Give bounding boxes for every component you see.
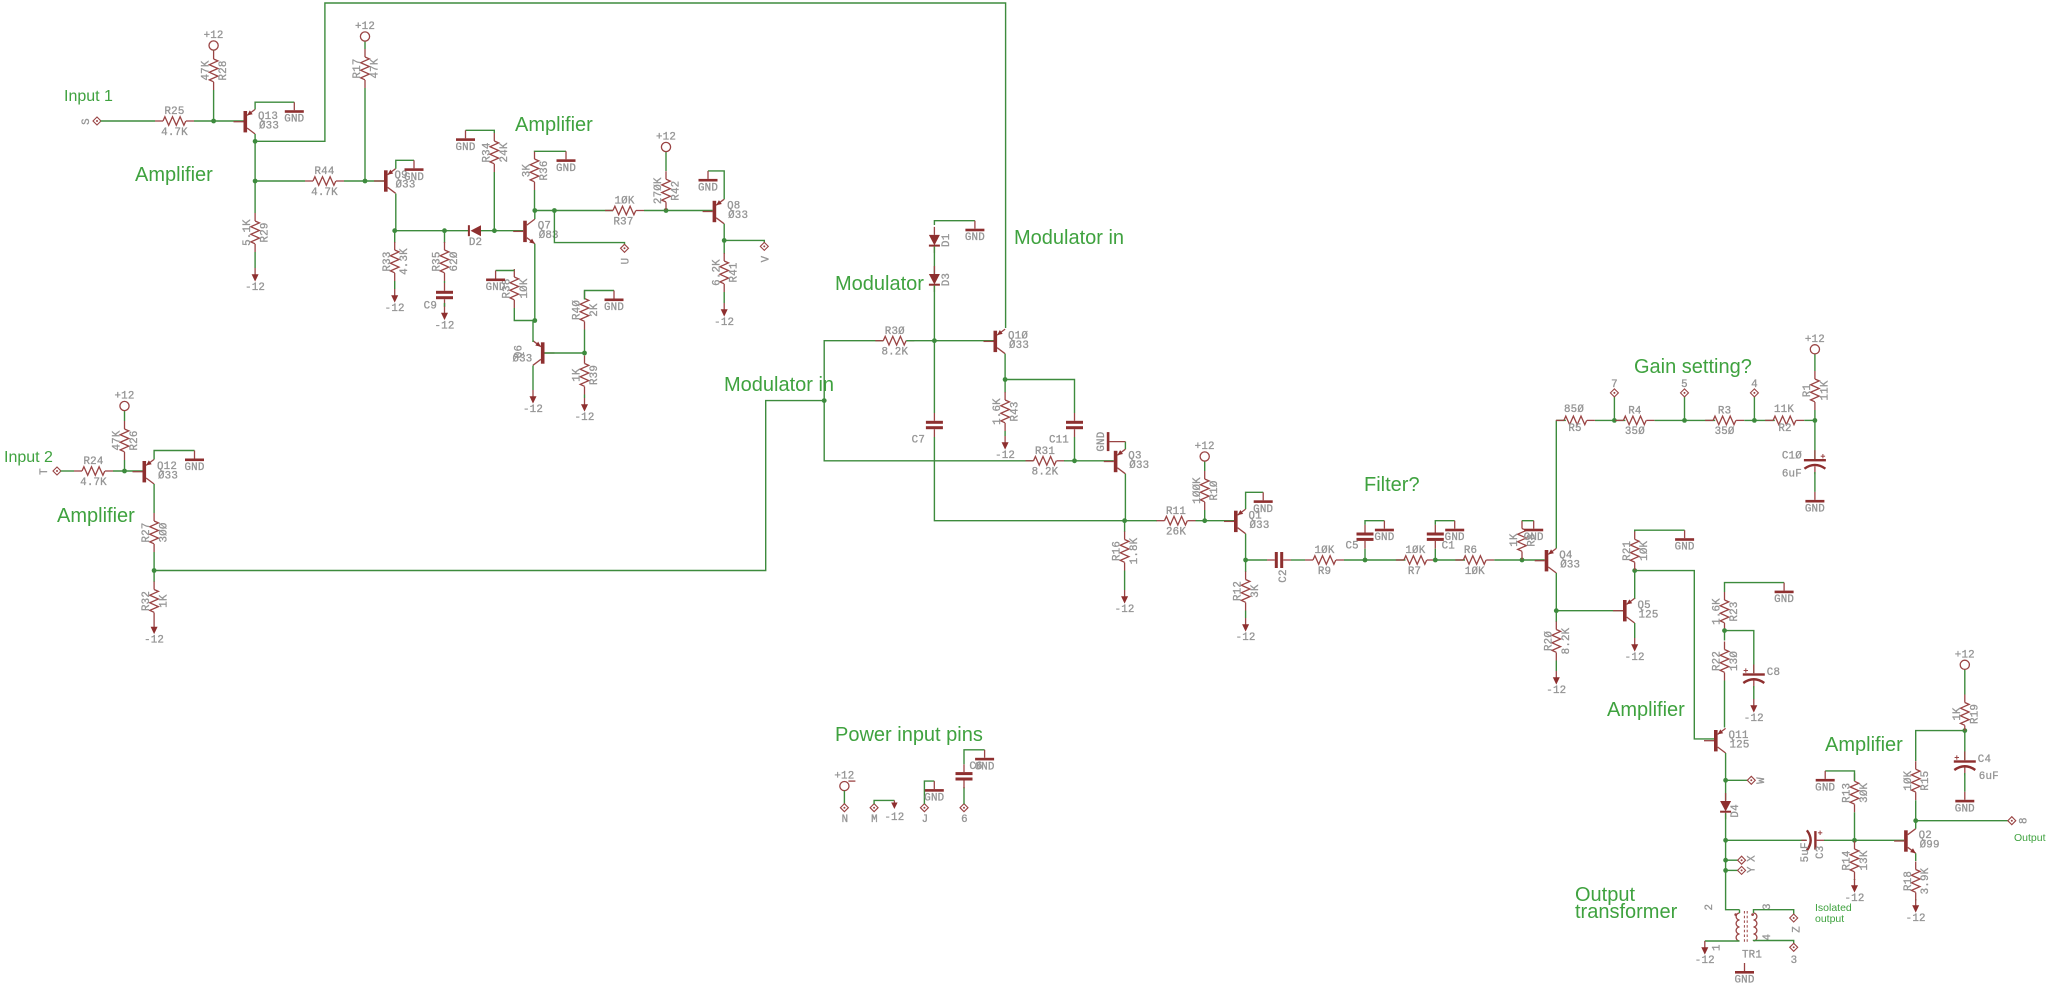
junction O3: [1852, 838, 1857, 843]
svg-text:2K: 2K: [589, 303, 601, 317]
svg-text:3.9K: 3.9K: [1920, 867, 1932, 894]
svg-text:GND: GND: [1805, 503, 1825, 515]
svg-text:GND: GND: [455, 142, 475, 154]
transistor Q9: [374, 169, 416, 194]
svg-text:3ØØ: 3ØØ: [159, 522, 171, 542]
svg-text:W: W: [1756, 777, 1768, 784]
label Amplifier: [515, 114, 593, 136]
junction F3: [1520, 558, 1525, 563]
svg-text:D2: D2: [469, 237, 482, 249]
wire Q9 collector down: [395, 194, 397, 231]
ground G13: [1445, 521, 1465, 545]
wire Q13 collector down: [254, 134, 256, 181]
svg-text:Output: Output: [2014, 832, 2046, 844]
wire C9 bottom: [444, 303, 446, 307]
svg-text:8.2K: 8.2K: [1561, 627, 1573, 654]
junction O4: [1723, 858, 1728, 863]
wire to TR1: [1726, 870, 1740, 909]
wire Q4c to Q5: [1556, 610, 1624, 612]
junction O7: [1962, 728, 1967, 733]
svg-text:Amplifier: Amplifier: [515, 114, 593, 136]
diode D4: [1720, 793, 1742, 819]
svg-text:R1Ø: R1Ø: [1209, 480, 1221, 500]
svg-text:3: 3: [1791, 955, 1798, 967]
svg-text:5uF: 5uF: [1800, 842, 1812, 862]
svg-text:27ØK: 27ØK: [653, 177, 665, 204]
ground G2: [404, 160, 424, 184]
junction O1: [1723, 778, 1728, 783]
svg-text:D4: D4: [1730, 804, 1742, 817]
wire Q5 emitter up: [1634, 571, 1636, 599]
svg-text:1ØK: 1ØK: [1465, 566, 1485, 578]
junction Q5k: [1722, 628, 1727, 633]
svg-text:R37: R37: [613, 216, 633, 228]
resistor R4: [1615, 406, 1654, 439]
junction F4: [1554, 608, 1559, 613]
wire R38 top to GND: [496, 270, 515, 272]
svg-text:13Ø: 13Ø: [1729, 651, 1741, 671]
svg-text:35Ø: 35Ø: [1715, 426, 1735, 438]
ground G1: [284, 102, 304, 126]
svg-text:R36: R36: [539, 160, 551, 180]
svg-text:125: 125: [1730, 739, 1750, 751]
resistor R21: [1622, 531, 1651, 570]
wire R41 top: [723, 240, 725, 254]
pin T: [39, 467, 61, 475]
svg-text:R2: R2: [1778, 423, 1791, 435]
svg-text:R27: R27: [141, 522, 153, 542]
pin U: [620, 244, 632, 264]
supply -12 M6: [714, 303, 734, 329]
wire R19 bottom: [1964, 731, 1966, 734]
resistor R35: [432, 242, 461, 281]
svg-text:C3: C3: [1815, 846, 1827, 859]
wire Q7 emitter down: [534, 244, 536, 321]
svg-text:R25: R25: [164, 106, 184, 118]
svg-text:5: 5: [1681, 379, 1688, 391]
svg-text:1ØØK: 1ØØK: [1192, 477, 1204, 504]
supply +12 P4: [114, 391, 134, 411]
svg-text:-12: -12: [1695, 955, 1715, 967]
wire R11 to Q1: [1196, 520, 1235, 522]
wire R34 top to GND: [466, 130, 495, 133]
supply -12 Mp: [884, 800, 904, 824]
label Modulator: [835, 273, 924, 295]
resistor R19: [1952, 695, 1981, 734]
pin W: [1747, 776, 1768, 784]
resistor: [1765, 416, 1804, 425]
junction Q5j: [1632, 568, 1637, 573]
svg-text:1ØK: 1ØK: [1639, 540, 1651, 560]
ground G5: [486, 271, 506, 295]
wire R14 bottom: [1854, 879, 1856, 880]
wire W stub: [1726, 779, 1748, 781]
wire pin7 stub: [1613, 397, 1615, 421]
wire Y stub: [1726, 869, 1738, 871]
resistor R13: [1842, 773, 1871, 812]
svg-text:R15: R15: [1920, 771, 1932, 791]
svg-text:3K: 3K: [1250, 584, 1262, 598]
svg-text:GND: GND: [1524, 532, 1544, 544]
junction A1: [211, 119, 216, 124]
pin S: [81, 117, 101, 125]
svg-text:6.2K: 6.2K: [711, 259, 723, 286]
wire pin4 stub: [1753, 397, 1755, 421]
svg-text:Modulator: Modulator: [835, 273, 924, 295]
svg-text:C1Ø: C1Ø: [1782, 451, 1802, 463]
svg-text:1ØK: 1ØK: [1903, 770, 1915, 790]
transistor Q8: [703, 199, 749, 224]
resistor R29: [242, 213, 271, 252]
svg-text:N: N: [842, 814, 849, 826]
svg-text:3K: 3K: [522, 164, 534, 178]
svg-text:D1: D1: [941, 234, 953, 247]
svg-text:R28: R28: [218, 60, 230, 80]
wire R43 top: [1004, 380, 1006, 393]
wire R23-R22: [1724, 631, 1726, 641]
wire R21 top to GND: [1635, 530, 1685, 531]
wire Q1 emitter up: [1246, 492, 1264, 509]
svg-text:R41: R41: [729, 262, 741, 282]
wire output rail: [1916, 820, 2008, 822]
svg-text:R9: R9: [1318, 566, 1331, 578]
ground G3: [455, 130, 475, 154]
svg-text:-12: -12: [434, 321, 454, 333]
svg-text:8.2K: 8.2K: [881, 347, 908, 359]
svg-text:47K: 47K: [112, 430, 124, 450]
wire C1 top to GND: [1435, 521, 1454, 525]
wire Q12 emitter to GND: [154, 451, 194, 460]
wire Q12 collector down: [153, 484, 155, 513]
resistor R16: [1112, 532, 1141, 571]
svg-text:R26: R26: [129, 430, 141, 450]
supply +12 P3: [656, 132, 676, 152]
label Amplifier: [57, 505, 135, 527]
svg-text:Modulator in: Modulator in: [1014, 227, 1124, 249]
svg-text:Ø33: Ø33: [1009, 340, 1029, 352]
svg-text:125: 125: [1639, 609, 1659, 621]
pin 4: [1750, 389, 1758, 397]
wire C5 stub: [1364, 549, 1366, 560]
wire R18 bottom: [1915, 899, 1917, 901]
svg-text:R6: R6: [1464, 545, 1477, 557]
svg-text:R19: R19: [1969, 704, 1981, 724]
svg-text:Ø83: Ø83: [539, 230, 559, 242]
svg-text:R22: R22: [1712, 651, 1724, 671]
svg-text:transformer: transformer: [1575, 901, 1678, 923]
svg-text:Input 2: Input 2: [4, 449, 53, 466]
wire R21 bottom: [1634, 569, 1636, 571]
svg-text:R12: R12: [1233, 581, 1245, 601]
resistor R15: [1903, 761, 1932, 800]
svg-text:Amplifier: Amplifier: [1607, 699, 1685, 721]
resistor R26: [112, 421, 141, 460]
wire Q1 to C2: [1246, 559, 1267, 561]
svg-text:C5: C5: [1345, 541, 1358, 553]
transistor Q13: [234, 109, 280, 134]
svg-text:Ø33: Ø33: [259, 120, 279, 132]
wire X stub: [1726, 859, 1738, 861]
wire D1 to D3: [933, 247, 935, 275]
junction A2: [253, 139, 258, 144]
ground G8: [184, 451, 204, 475]
wire R23 top to GND: [1725, 583, 1785, 592]
svg-text:R23: R23: [1729, 601, 1741, 621]
capacitor C10: [1782, 450, 1826, 481]
svg-text:C9: C9: [424, 301, 437, 313]
label Gain setting?: [1634, 356, 1752, 378]
supply -12 M8: [995, 436, 1015, 462]
wire Q6 collector down: [532, 366, 534, 391]
wire Q2 collector up: [1915, 821, 1917, 829]
wire 6 to C6: [963, 787, 965, 804]
svg-text:-12: -12: [1906, 913, 1926, 925]
junction C2j: [932, 338, 937, 343]
svg-text:R24: R24: [83, 456, 103, 468]
transistor Q2: [1894, 829, 1940, 854]
svg-text:R13: R13: [1842, 783, 1854, 803]
diode D2: [469, 225, 482, 249]
ground G12: [1374, 521, 1394, 545]
capacitor C5: [1345, 525, 1373, 553]
svg-text:Ø33: Ø33: [512, 354, 532, 366]
svg-text:R33: R33: [382, 251, 394, 271]
svg-text:R31: R31: [1035, 446, 1055, 458]
wire C8 branch: [1725, 631, 1754, 673]
resistor R18: [1903, 862, 1932, 901]
svg-text:Ø33: Ø33: [1250, 520, 1270, 532]
svg-text:3: 3: [1762, 903, 1774, 910]
ground G14: [1524, 521, 1544, 545]
junction A3: [253, 179, 258, 184]
ground G6: [604, 291, 624, 315]
svg-text:R4Ø: R4Ø: [572, 300, 584, 320]
wire D2 to Q7: [481, 230, 523, 232]
wire S to R25: [101, 120, 155, 122]
wire R29 top: [254, 181, 256, 213]
svg-text:4: 4: [1751, 379, 1758, 391]
supply -12 M12: [1625, 638, 1645, 664]
wire Q8 emitter to GND: [708, 171, 724, 199]
svg-text:6uF: 6uF: [1979, 771, 1999, 783]
supply +12 P2: [355, 21, 375, 41]
wire C11 branch: [1005, 380, 1074, 414]
resistor R33: [382, 242, 411, 281]
resistor R24: [74, 456, 113, 489]
svg-text:11K: 11K: [1774, 404, 1794, 416]
svg-text:Z: Z: [1791, 926, 1803, 933]
svg-text:GND: GND: [975, 761, 995, 773]
ground G21: [924, 781, 944, 805]
svg-text:2: 2: [1704, 904, 1716, 911]
ground G16: [1675, 530, 1695, 554]
supply +12 P6: [1805, 334, 1825, 354]
svg-text:GND: GND: [1774, 594, 1794, 606]
transistor: [533, 341, 555, 366]
wire R2 to R1: [1804, 419, 1815, 421]
svg-text:C4: C4: [1978, 754, 1991, 766]
svg-text:GND: GND: [556, 163, 576, 175]
wire R12 bottom: [1245, 611, 1247, 619]
svg-text:C2: C2: [1278, 569, 1290, 582]
junction A9: [552, 208, 557, 213]
svg-text:Ø33: Ø33: [158, 470, 178, 482]
wire Q5j right: [1635, 571, 1714, 739]
transistor Q1: [1224, 509, 1270, 534]
junction C4j: [1072, 458, 1077, 463]
svg-text:U: U: [620, 258, 632, 265]
ground G15: [1805, 492, 1825, 516]
svg-text:Amplifier: Amplifier: [135, 164, 213, 186]
svg-text:GND: GND: [1253, 504, 1273, 516]
wire C4 top: [1964, 731, 1966, 760]
svg-text:85Ø: 85Ø: [1564, 404, 1584, 416]
wire D3 to junction: [933, 286, 935, 341]
wire C2 to R9: [1291, 559, 1305, 561]
label Power input pins: [835, 724, 983, 746]
junction C6j: [1202, 518, 1207, 523]
wire Q3 collector down: [1124, 474, 1126, 521]
resistor R38: [501, 269, 530, 308]
ground G20: [1734, 963, 1754, 984]
svg-text:6uF: 6uF: [1782, 469, 1802, 481]
wire R5 left: [1556, 419, 1566, 421]
supply -12 M1: [245, 268, 265, 294]
svg-text:1K: 1K: [572, 368, 584, 382]
svg-text:+12: +12: [1195, 441, 1215, 453]
svg-text:4.7K: 4.7K: [80, 477, 107, 489]
wire R20 bottom: [1555, 661, 1557, 672]
svg-text:-12: -12: [995, 450, 1015, 462]
resistor R1: [1802, 371, 1831, 410]
junction F2: [1433, 558, 1438, 563]
capacitor C9: [424, 283, 453, 313]
svg-text:Ø33: Ø33: [1129, 460, 1149, 472]
label Output: [2014, 832, 2046, 844]
svg-text:R44: R44: [314, 166, 334, 178]
junction A5: [392, 228, 397, 233]
transistor Q4: [1535, 548, 1581, 573]
resistor: [1455, 556, 1494, 565]
svg-text:X: X: [1747, 855, 1759, 862]
label Isolated output: [1815, 902, 1852, 925]
wire R22 bottom: [1724, 681, 1726, 728]
wire R43 bottom: [1004, 431, 1006, 436]
junction GS1: [1612, 418, 1617, 423]
ground G18: [1815, 771, 1835, 795]
supply -12 M10: [1236, 618, 1256, 644]
svg-text:GND: GND: [604, 302, 624, 314]
resistor R25: [155, 106, 194, 139]
resistor R20: [1543, 622, 1572, 661]
svg-text:4.7K: 4.7K: [161, 127, 188, 139]
svg-text:4: 4: [1762, 934, 1774, 941]
wire mid rail: [535, 210, 613, 212]
capacitor C7: [912, 413, 943, 447]
svg-text:R42: R42: [671, 181, 683, 201]
svg-text:M: M: [871, 814, 878, 826]
ground G7: [698, 171, 718, 195]
wire TR1 primary bottom: [1705, 940, 1740, 942]
junction C7j: [1243, 558, 1248, 563]
wire Q4 emitter up: [1555, 420, 1557, 548]
svg-text:+12: +12: [1955, 649, 1975, 661]
wire R16 bottom: [1124, 571, 1126, 591]
wire Q7 collector up: [534, 211, 536, 220]
pin V: [760, 242, 772, 262]
wire C3 to Q2: [1824, 839, 1904, 841]
svg-text:Amplifier: Amplifier: [1825, 734, 1903, 756]
wire R8 stub: [1521, 559, 1523, 562]
capacitor C2: [1267, 552, 1291, 583]
supply -12 M2: [385, 289, 405, 315]
svg-text:D3: D3: [941, 273, 953, 286]
wire R9 to C5: [1344, 559, 1406, 561]
svg-text:+12: +12: [656, 132, 676, 144]
svg-text:Amplifier: Amplifier: [57, 505, 135, 527]
svg-text:24K: 24K: [499, 142, 511, 162]
junction A4: [363, 179, 368, 184]
resistor: [1556, 416, 1595, 425]
svg-text:-12: -12: [245, 282, 265, 294]
svg-text:J: J: [922, 814, 929, 826]
wire R3 to R2: [1744, 419, 1775, 421]
transistor Q3: [1104, 449, 1150, 474]
pin 5: [1681, 389, 1689, 397]
pin Y: [1738, 866, 1759, 874]
label Modulator in: [1014, 227, 1124, 249]
svg-text:3ØK: 3ØK: [1859, 782, 1871, 802]
capacitor C3: [1800, 830, 1827, 862]
wire R1 bottom: [1814, 410, 1816, 420]
wire R27 bottom: [153, 552, 155, 571]
junction C5j: [1122, 518, 1127, 523]
supply -12 M16: [1695, 941, 1715, 967]
svg-text:Filter?: Filter?: [1364, 474, 1420, 496]
wire C11 bottom: [1074, 437, 1076, 461]
junction F1: [1363, 558, 1368, 563]
resistor R12: [1233, 572, 1262, 611]
svg-text:1ØK: 1ØK: [519, 278, 531, 298]
svg-text:GND: GND: [486, 282, 506, 294]
wire R31 to Q3: [1064, 460, 1114, 462]
pin 3b: [1790, 943, 1798, 951]
wire C8 bottom: [1753, 686, 1755, 700]
wire A3 to R44: [255, 180, 305, 182]
resistor: [1396, 556, 1435, 565]
wire R20 top: [1555, 611, 1557, 622]
resistor R23: [1712, 592, 1741, 631]
svg-text:GND: GND: [184, 462, 204, 474]
supply +12 P7: [1955, 649, 1975, 669]
wire +12 to R26: [124, 411, 126, 422]
svg-text:6: 6: [961, 814, 968, 826]
svg-text:R14: R14: [1842, 850, 1854, 870]
junction O6: [1913, 818, 1918, 823]
wire R36 bottom: [534, 190, 536, 211]
wire J to GND: [924, 781, 934, 804]
junction A8: [532, 208, 537, 213]
wire +12 to R28: [213, 50, 215, 51]
wire Q1 collector down: [1245, 534, 1247, 560]
svg-text:R17: R17: [352, 58, 364, 78]
ground G17: [1774, 583, 1794, 607]
svg-text:R35: R35: [432, 251, 444, 271]
resistor R14: [1842, 841, 1871, 880]
svg-text:1K: 1K: [1509, 533, 1521, 547]
wire C4 bottom: [1964, 773, 1966, 792]
resistor R17: [352, 49, 381, 88]
